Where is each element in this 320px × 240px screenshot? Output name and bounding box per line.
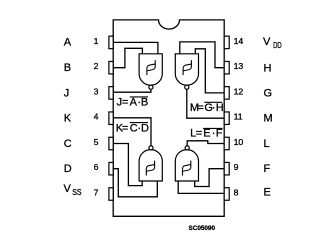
- svg-text:V: V: [64, 183, 72, 195]
- svg-text:L: L: [264, 138, 270, 150]
- svg-text:J: J: [64, 87, 70, 99]
- svg-text:SS: SS: [72, 188, 81, 197]
- svg-text:11: 11: [234, 112, 243, 122]
- svg-text:D: D: [64, 163, 72, 175]
- svg-text:M: M: [264, 113, 273, 125]
- svg-text:14: 14: [234, 36, 244, 46]
- svg-text:C: C: [64, 138, 72, 150]
- svg-text:H: H: [264, 62, 272, 74]
- svg-text:F: F: [264, 163, 271, 175]
- svg-text:G: G: [264, 87, 273, 99]
- svg-text:10: 10: [234, 137, 244, 147]
- svg-text:4: 4: [94, 112, 99, 122]
- svg-text:1: 1: [94, 36, 99, 46]
- svg-text:5: 5: [94, 137, 99, 147]
- svg-text:L=E·F: L=E·F: [190, 128, 223, 140]
- svg-text:DD: DD: [273, 41, 282, 50]
- svg-text:K=C·D: K=C·D: [116, 123, 149, 135]
- svg-text:6: 6: [94, 162, 99, 172]
- svg-text:9: 9: [234, 162, 239, 172]
- svg-text:K: K: [64, 113, 72, 125]
- svg-text:B: B: [64, 62, 71, 74]
- svg-text:M=G·H: M=G·H: [190, 102, 224, 114]
- svg-text:12: 12: [234, 86, 244, 96]
- svg-text:3: 3: [94, 86, 99, 96]
- svg-text:8: 8: [234, 188, 239, 198]
- svg-text:SC05090: SC05090: [189, 225, 216, 232]
- svg-text:13: 13: [234, 61, 244, 71]
- svg-text:2: 2: [94, 61, 99, 71]
- svg-text:A: A: [64, 37, 72, 49]
- svg-text:E: E: [264, 187, 271, 199]
- svg-text:J=A·B: J=A·B: [117, 97, 149, 109]
- svg-text:V: V: [263, 36, 271, 48]
- svg-text:7: 7: [94, 188, 99, 198]
